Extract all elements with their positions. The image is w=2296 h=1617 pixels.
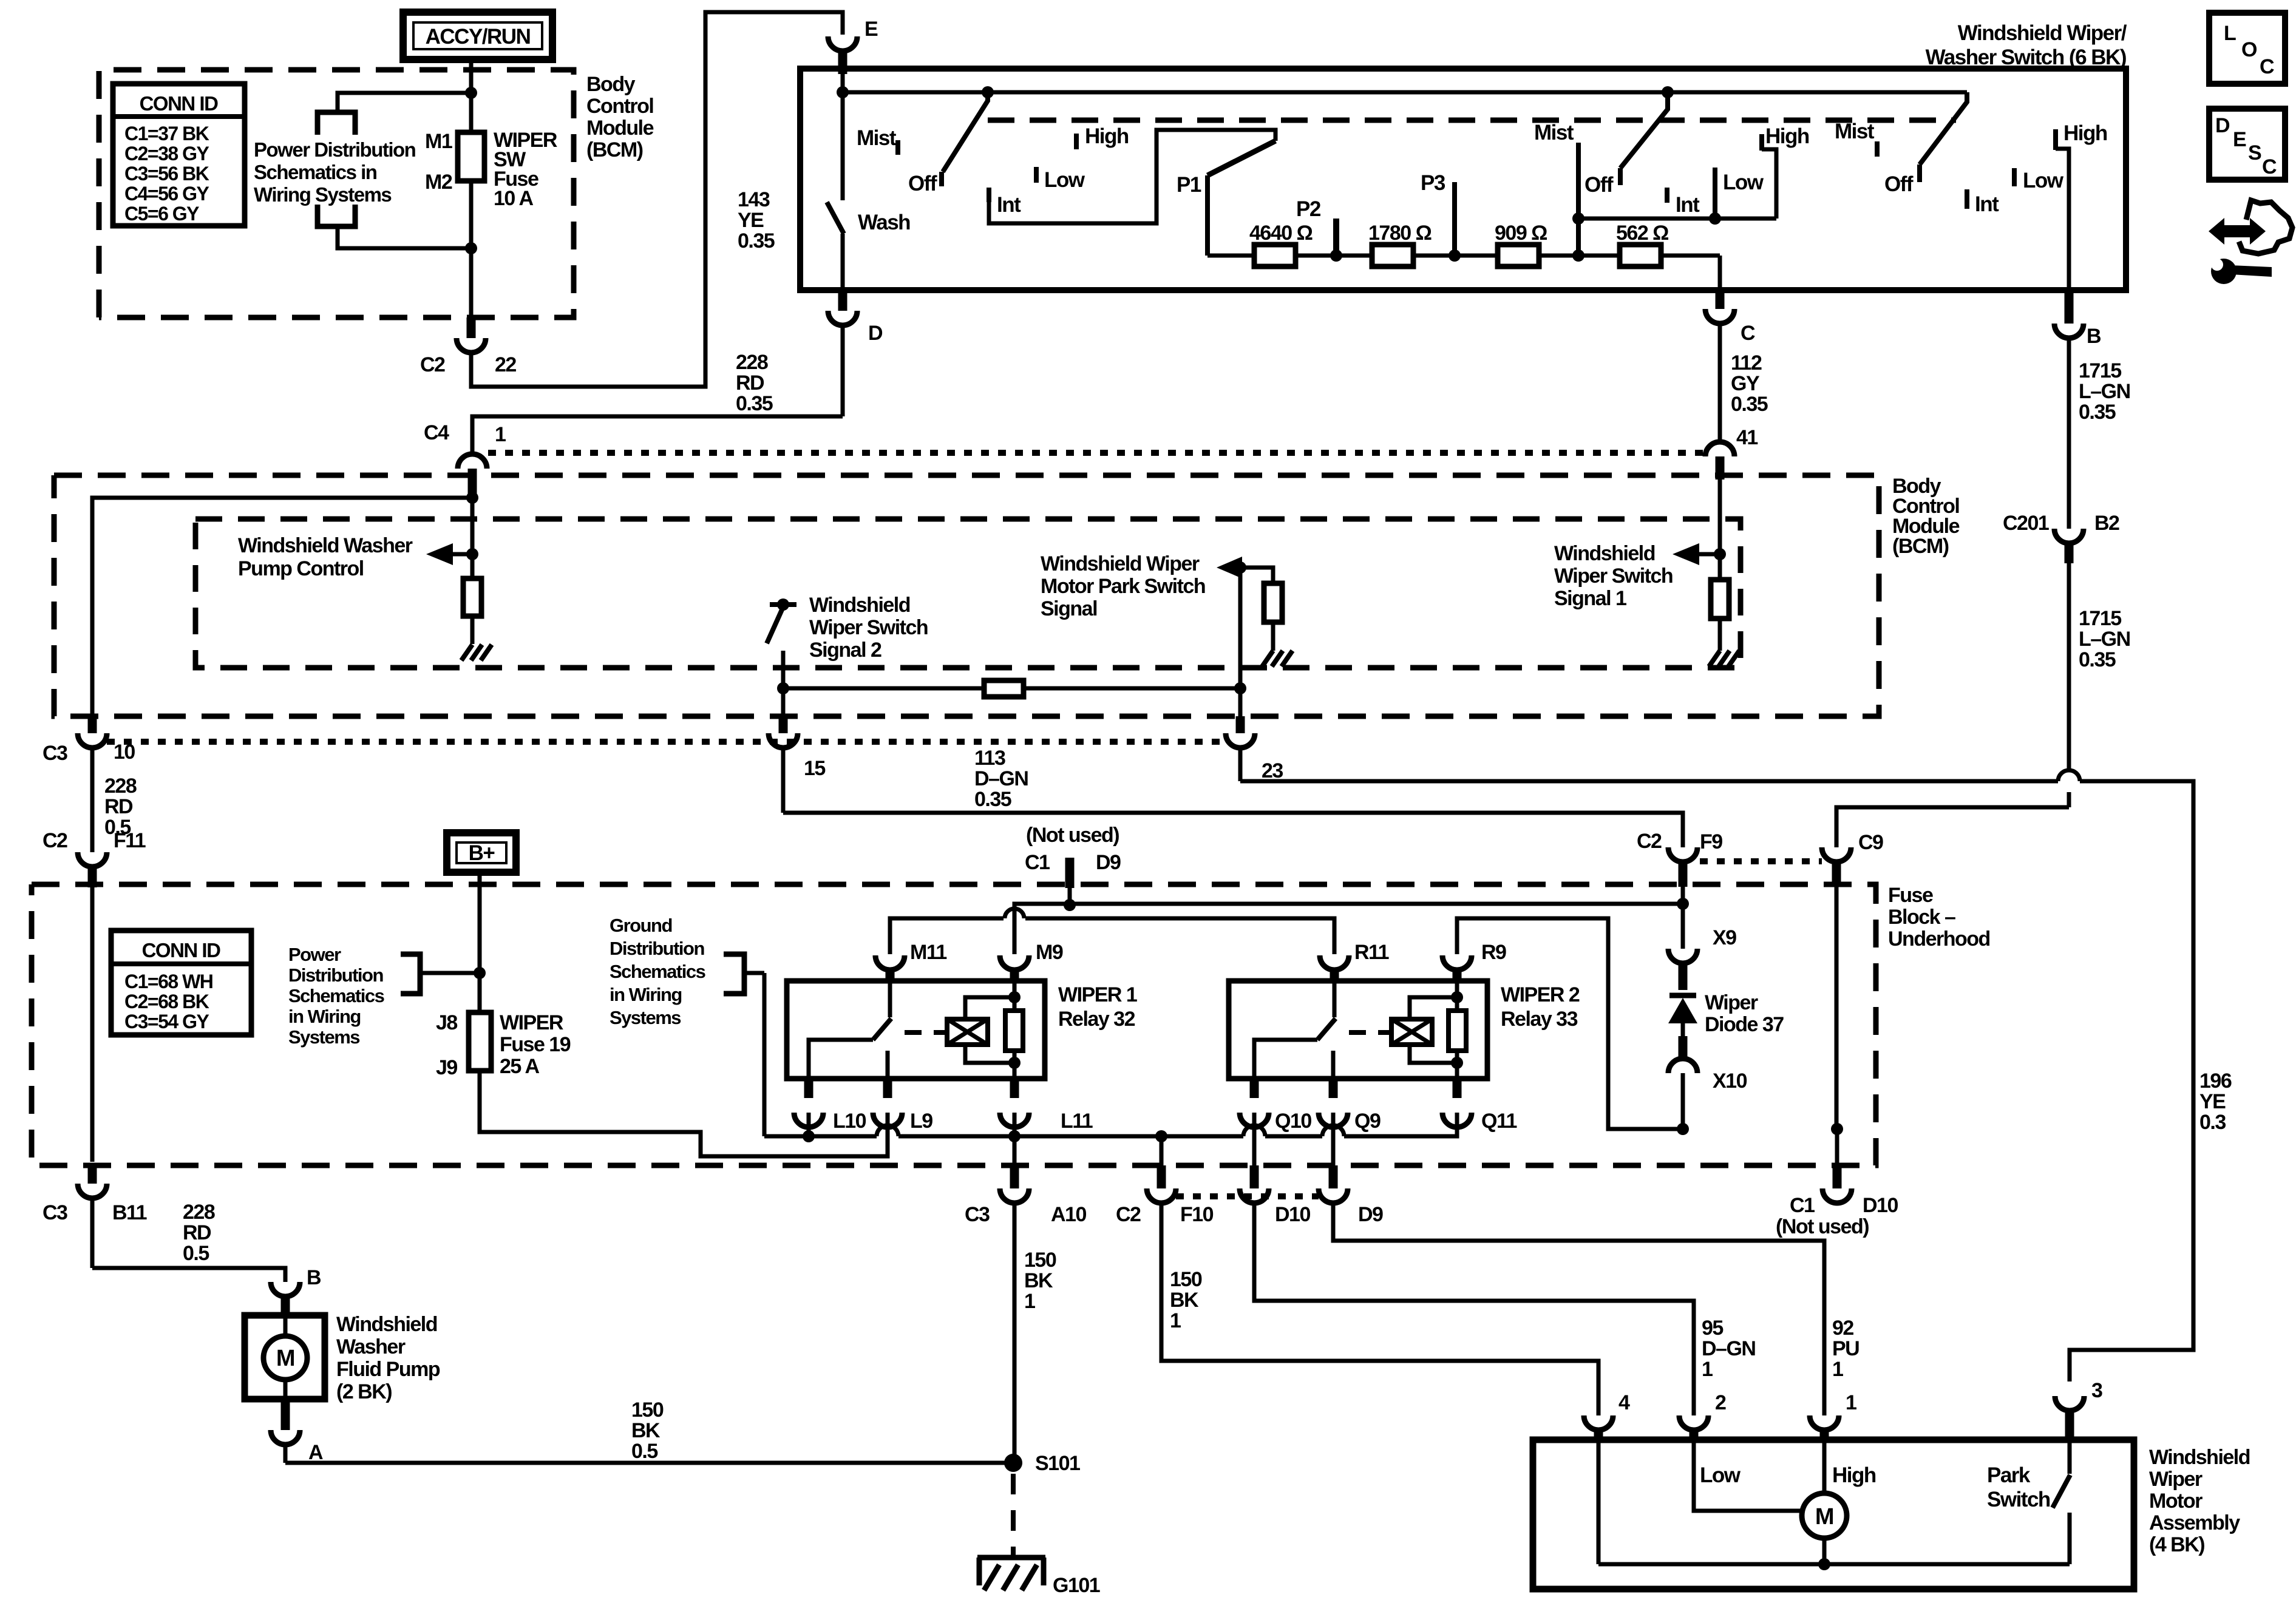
CONN ID table 1 <box>113 84 245 226</box>
svg-text:X10: X10 <box>1713 1070 1747 1093</box>
svg-text:Int: Int <box>997 193 1021 217</box>
wire D to C4 <box>472 416 843 454</box>
svg-text:Diode 37: Diode 37 <box>1705 1013 1784 1036</box>
service icon hand outline <box>2239 200 2292 254</box>
svg-text:F11: F11 <box>114 829 146 852</box>
svg-text:BK: BK <box>1170 1289 1199 1312</box>
connector L9 <box>883 1079 892 1098</box>
node X10 W4 <box>1677 1123 1689 1135</box>
connector C3 A10 <box>1013 1136 1017 1165</box>
BCM (top) dashed box <box>99 70 574 317</box>
svg-text:Off: Off <box>1584 173 1614 197</box>
wire Int to P1 wiper <box>989 130 1275 223</box>
svg-text:C1=68 WH: C1=68 WH <box>124 971 212 992</box>
connector R9 <box>1442 955 1472 970</box>
wire signal2 to 15 <box>781 688 786 716</box>
svg-text:F10: F10 <box>1180 1203 1214 1226</box>
wire B11 to washer pump B <box>92 1268 285 1282</box>
connector L10 <box>804 1079 813 1098</box>
svg-text:4640 Ω: 4640 Ω <box>1249 222 1313 245</box>
svg-text:Signal 2: Signal 2 <box>809 639 881 662</box>
svg-text:Windshield Wiper: Windshield Wiper <box>1041 552 1200 575</box>
svg-text:D10: D10 <box>1863 1194 1898 1217</box>
svg-text:B: B <box>307 1266 321 1289</box>
connector E <box>828 36 857 51</box>
svg-text:CONN ID: CONN ID <box>140 92 219 115</box>
contact High (bank1) <box>1074 134 1079 149</box>
connector 3 <box>2055 1396 2084 1411</box>
svg-text:143: 143 <box>738 188 770 211</box>
svg-text:D: D <box>868 322 883 345</box>
svg-text:M1: M1 <box>425 130 452 153</box>
svg-text:Int: Int <box>1676 193 1700 217</box>
svg-text:WIPER 1: WIPER 1 <box>1058 983 1137 1006</box>
svg-text:M: M <box>1815 1504 1833 1530</box>
node motor common <box>1818 1558 1830 1570</box>
svg-text:A: A <box>308 1441 323 1464</box>
off-page bracket (ground distribution) <box>724 954 744 994</box>
DESC box <box>2209 109 2285 180</box>
svg-text:C2=68 BK: C2=68 BK <box>124 991 209 1012</box>
resistor 1780 ohm <box>1372 245 1413 266</box>
node signal2 113 <box>777 682 789 694</box>
svg-text:Washer Switch (6 BK): Washer Switch (6 BK) <box>1926 46 2126 69</box>
node washer pump control <box>466 548 478 560</box>
node bank1 pivot <box>982 86 994 98</box>
relay 32 coil <box>947 1019 988 1045</box>
svg-text:B: B <box>2087 325 2101 348</box>
ground G101 <box>977 1555 1045 1561</box>
motor wire low <box>1694 1440 1802 1511</box>
svg-text:Q9: Q9 <box>1354 1110 1381 1133</box>
node wiper switch signal 1 <box>1714 548 1726 560</box>
svg-text:WIPER 2: WIPER 2 <box>1501 983 1580 1006</box>
svg-text:WIPER: WIPER <box>500 1011 563 1034</box>
svg-text:(Not used): (Not used) <box>1776 1215 1869 1238</box>
wire 143 YE C2-22 to E <box>471 12 843 387</box>
washer pump M1 box <box>245 1315 325 1399</box>
svg-text:Windshield: Windshield <box>809 594 910 617</box>
svg-text:10: 10 <box>114 741 135 764</box>
wire ACCY/RUN to fuse M1 <box>469 59 474 132</box>
connector C4 pin 1 <box>470 416 475 454</box>
relay 32 fixed contact <box>888 981 892 1017</box>
svg-text:R9: R9 <box>1481 941 1506 964</box>
node F10 ground <box>1155 1130 1167 1142</box>
relay 32 common path <box>809 1040 873 1079</box>
wire C4 to C3-10 <box>92 498 472 716</box>
connector X9 <box>1668 949 1697 963</box>
connector C <box>1716 290 1725 309</box>
svg-text:L–GN: L–GN <box>2079 380 2130 403</box>
svg-text:P2: P2 <box>1296 197 1321 221</box>
svg-text:1: 1 <box>1024 1290 1035 1313</box>
wire washer pump control <box>470 498 475 578</box>
connector Q11 <box>1453 1079 1462 1098</box>
svg-text:Power Distribution: Power Distribution <box>254 138 416 161</box>
svg-text:High: High <box>2063 121 2107 145</box>
contact Mist (bank1) <box>895 140 900 155</box>
CONN ID table 2 <box>111 931 251 1035</box>
svg-text:0.5: 0.5 <box>183 1242 209 1265</box>
resistor 4640 ohm <box>1254 245 1296 266</box>
contact Int (bank1) <box>987 188 991 202</box>
svg-text:Fluid Pump: Fluid Pump <box>336 1358 440 1381</box>
relay 33 blade <box>1317 1019 1336 1040</box>
wire W2 relay feed <box>890 918 1004 954</box>
relay 32 actuation dashes <box>905 1030 945 1035</box>
fuse WIPER Fuse 19 25A <box>469 1012 491 1071</box>
svg-text:Windshield Washer: Windshield Washer <box>238 534 413 557</box>
svg-text:Motor: Motor <box>2149 1490 2203 1513</box>
svg-text:Relay 33: Relay 33 <box>1501 1008 1578 1031</box>
resistor park switch signal <box>1240 568 1273 583</box>
relay 33 common path <box>1254 1040 1317 1079</box>
svg-text:Off: Off <box>1884 172 1914 196</box>
connector C2 F11 <box>78 852 107 867</box>
svg-text:C: C <box>2260 55 2274 78</box>
svg-text:Block –: Block – <box>1888 906 1955 929</box>
connector L11 <box>1010 1079 1019 1098</box>
switch blade bank1 <box>943 92 988 172</box>
wire 150 BK A to S101 <box>285 1461 1013 1465</box>
svg-text:R11: R11 <box>1354 941 1389 964</box>
dotted line F10-D9 row <box>1176 1193 1319 1199</box>
resistor 562 ohm <box>1620 245 1661 266</box>
connector 1 <box>1810 1415 1839 1430</box>
svg-text:113: 113 <box>974 747 1005 770</box>
svg-text:RD: RD <box>183 1221 211 1244</box>
wire fuse M2 down <box>469 181 474 317</box>
arrow wiper switch signal 1 <box>1698 552 1720 557</box>
svg-text:Mist: Mist <box>1534 121 1574 144</box>
svg-text:3: 3 <box>2091 1379 2102 1402</box>
wire F10 to motor 4 <box>1161 1203 1598 1415</box>
svg-text:41: 41 <box>1736 426 1758 449</box>
node L11 ground <box>1008 1130 1021 1142</box>
svg-text:Signal: Signal <box>1041 597 1097 620</box>
connector R11 <box>1320 955 1349 970</box>
svg-text:in Wiring: in Wiring <box>610 984 682 1005</box>
svg-text:B2: B2 <box>2094 512 2119 535</box>
svg-text:0.35: 0.35 <box>974 788 1011 811</box>
svg-text:RD: RD <box>736 371 764 395</box>
svg-text:E: E <box>2233 128 2246 151</box>
svg-text:0.35: 0.35 <box>736 392 773 415</box>
svg-text:B+: B+ <box>469 841 495 865</box>
svg-text:J9: J9 <box>436 1056 457 1079</box>
svg-text:Motor Park Switch: Motor Park Switch <box>1041 575 1205 598</box>
svg-text:Underhood: Underhood <box>1888 927 1990 951</box>
contact wire Mist (bank2) <box>1576 143 1581 256</box>
connector C3 B11 <box>88 1165 97 1184</box>
node fuse bottom <box>465 242 477 254</box>
resistor 909 ohm <box>1498 245 1539 266</box>
contact Mist (bank3) <box>1875 141 1880 157</box>
contact Int (bank2) <box>1665 188 1669 203</box>
svg-text:in Wiring: in Wiring <box>288 1006 361 1027</box>
wire R9 feed <box>1457 918 1683 1129</box>
node W1 F9 <box>1677 898 1689 910</box>
relay 33 coil wiring <box>1410 997 1457 1019</box>
svg-text:O: O <box>2241 38 2257 61</box>
svg-text:228: 228 <box>183 1201 215 1224</box>
svg-text:C1: C1 <box>1025 851 1050 874</box>
service icon double arrow <box>2209 218 2266 245</box>
svg-text:L–GN: L–GN <box>2079 628 2130 651</box>
node C4 junction <box>466 492 478 504</box>
wire 113 D-GN 15 to C2-F9 <box>783 813 1683 847</box>
svg-text:23: 23 <box>1262 759 1283 782</box>
svg-text:Switch: Switch <box>1987 1488 2050 1511</box>
tap P3 <box>1452 182 1457 256</box>
arrow wiper motor park switch signal <box>1217 557 1242 578</box>
connector D <box>838 290 847 311</box>
BCM (main) dashed box <box>54 475 1879 716</box>
svg-text:Windshield Wiper/: Windshield Wiper/ <box>1958 21 2127 45</box>
svg-text:P3: P3 <box>1421 171 1445 195</box>
svg-text:0.35: 0.35 <box>738 229 775 253</box>
connector C1 D10 (not used) <box>1833 1165 1842 1188</box>
wire 113 D-GN resistor <box>783 686 984 691</box>
wire wiper motor park switch signal <box>1238 568 1243 716</box>
svg-text:10 A: 10 A <box>494 187 534 210</box>
connector M9 <box>1000 955 1029 970</box>
svg-text:GY: GY <box>1731 372 1760 395</box>
fuse block underhood dashed box <box>32 884 1876 1165</box>
wire wiper switch signal 1 <box>1718 554 1722 580</box>
wire C9 to D10 (not used) <box>1835 1129 1839 1165</box>
ground (washer pump control) <box>461 645 472 660</box>
svg-text:C2: C2 <box>1637 830 1662 853</box>
wire switch common bus <box>841 74 845 92</box>
svg-text:4: 4 <box>1618 1391 1630 1414</box>
svg-text:M: M <box>276 1346 294 1371</box>
svg-text:High: High <box>1085 124 1129 148</box>
svg-text:Relay 32: Relay 32 <box>1058 1008 1135 1031</box>
ground (wiper switch signal 1) <box>1709 651 1720 666</box>
switch Wash <box>841 92 845 200</box>
node C9 W4 <box>1831 1123 1843 1135</box>
svg-text:C1: C1 <box>1790 1194 1815 1217</box>
windshield wiper/washer switch box <box>800 69 2126 290</box>
washer pump motor M <box>284 1315 288 1337</box>
svg-text:1: 1 <box>1170 1309 1181 1332</box>
wire Int bus (bank2) <box>1578 217 1776 221</box>
relay 32 NO contact <box>886 1051 890 1079</box>
connector B (washer pump) <box>271 1282 300 1297</box>
svg-text:C3: C3 <box>42 1201 67 1224</box>
svg-text:C1=37 BK: C1=37 BK <box>124 123 209 144</box>
svg-text:150: 150 <box>1024 1249 1056 1272</box>
svg-text:C3: C3 <box>42 742 67 765</box>
svg-text:Fuse 19: Fuse 19 <box>500 1033 571 1056</box>
svg-text:D9: D9 <box>1358 1203 1383 1226</box>
svg-text:BK: BK <box>631 1419 661 1442</box>
svg-text:E: E <box>864 18 878 41</box>
svg-text:1: 1 <box>1702 1358 1713 1381</box>
connector D9 (relay) <box>1329 1165 1338 1188</box>
power feed box B+ <box>447 833 516 872</box>
svg-text:Q11: Q11 <box>1481 1110 1517 1133</box>
svg-text:15: 15 <box>804 757 825 780</box>
svg-text:228: 228 <box>736 351 768 374</box>
svg-text:D–GN: D–GN <box>1702 1337 1755 1360</box>
svg-text:Washer: Washer <box>336 1335 406 1358</box>
svg-text:(4 BK): (4 BK) <box>2149 1533 2204 1556</box>
svg-text:95: 95 <box>1702 1317 1723 1340</box>
connector Q10 <box>1250 1079 1259 1098</box>
motor wire high <box>1822 1440 1827 1493</box>
svg-text:Power: Power <box>288 944 341 965</box>
svg-text:C9: C9 <box>1858 831 1883 854</box>
BCM inner dashed box <box>195 519 1741 668</box>
motor M2 (wiper motor) <box>1802 1493 1847 1538</box>
node wash tap <box>837 86 849 98</box>
svg-text:Distribution: Distribution <box>288 964 383 986</box>
svg-text:G101: G101 <box>1053 1574 1100 1597</box>
wire fuse 19 to L9 <box>480 1071 888 1156</box>
arrow windshield washer pump control <box>452 552 472 557</box>
svg-text:L10: L10 <box>833 1110 866 1133</box>
svg-text:Wiper Switch: Wiper Switch <box>1554 564 1673 588</box>
svg-text:Assembly: Assembly <box>2149 1511 2240 1534</box>
svg-text:0.3: 0.3 <box>2199 1111 2226 1134</box>
svg-text:C5=6 GY: C5=6 GY <box>124 203 199 225</box>
svg-text:Wiper Switch: Wiper Switch <box>809 616 928 639</box>
motor wire common <box>1822 1538 1827 1564</box>
svg-text:High: High <box>1832 1463 1876 1487</box>
svg-text:F9: F9 <box>1700 830 1722 853</box>
wire B+ to fuse 19 <box>478 872 482 1012</box>
contact Low (bank1) <box>1034 167 1039 183</box>
svg-text:RD: RD <box>104 795 133 818</box>
wire D10 to motor 2 <box>1254 1203 1694 1415</box>
service icon wrench <box>2211 259 2237 284</box>
svg-text:C201: C201 <box>2003 512 2049 535</box>
svg-text:22: 22 <box>495 353 516 376</box>
connector C2 pin 22 <box>467 317 476 338</box>
contact High (bank2) <box>1759 134 1764 151</box>
bracket upper (power distribution BCM) <box>338 93 471 112</box>
windshield wiper motor assembly box <box>1533 1440 2134 1589</box>
svg-text:M11: M11 <box>910 941 946 964</box>
connector C3 pin 10 <box>88 716 97 733</box>
svg-text:(2 BK): (2 BK) <box>336 1380 392 1403</box>
svg-text:Schematics: Schematics <box>288 985 384 1006</box>
svg-text:A10: A10 <box>1051 1203 1086 1226</box>
svg-text:Pump Control: Pump Control <box>238 557 364 580</box>
svg-text:1715: 1715 <box>2079 607 2121 630</box>
connector A (washer pump) <box>281 1399 290 1430</box>
contact wire Low (bank2) <box>1713 168 1717 219</box>
svg-text:2: 2 <box>1715 1391 1726 1414</box>
svg-text:Body: Body <box>586 73 636 96</box>
svg-text:C3=54 GY: C3=54 GY <box>124 1011 209 1032</box>
svg-text:Wiring Systems: Wiring Systems <box>254 183 391 206</box>
connector B <box>2065 290 2074 324</box>
svg-text:PU: PU <box>1832 1337 1859 1360</box>
svg-text:P1: P1 <box>1177 173 1201 197</box>
node bank2 pivot <box>1662 86 1674 98</box>
svg-text:Control: Control <box>586 95 653 118</box>
svg-text:228: 228 <box>104 775 137 798</box>
dotted line C3 connector row <box>107 739 1226 745</box>
connector 4 <box>1584 1415 1613 1430</box>
dashed gang line <box>988 118 1956 123</box>
svg-text:C2: C2 <box>1116 1203 1141 1226</box>
svg-text:0.35: 0.35 <box>2079 648 2116 671</box>
wire W1 relay feed <box>1014 904 1683 954</box>
connector M11 <box>875 955 905 970</box>
wire F9 to X9 <box>1681 904 1685 949</box>
wire 113 D-GN 23 to 196 YE <box>1240 779 2058 784</box>
diode CR37 wiper diode 37 <box>1669 993 1696 998</box>
svg-text:High: High <box>1765 124 1809 148</box>
svg-text:C2: C2 <box>42 829 67 852</box>
svg-text:562 Ω: 562 Ω <box>1616 222 1668 245</box>
svg-text:Wiper: Wiper <box>1705 991 1758 1014</box>
relay 33 NO contact <box>1331 1051 1336 1079</box>
wire S101 to G101 dashed <box>1011 1474 1016 1555</box>
svg-text:150: 150 <box>1170 1268 1202 1291</box>
svg-text:Low: Low <box>1723 171 1764 194</box>
wire ladder to C <box>1718 256 1722 290</box>
switch wiper switch signal 2 <box>770 602 796 607</box>
svg-text:92: 92 <box>1832 1317 1853 1340</box>
svg-text:C3=56 BK: C3=56 BK <box>124 163 209 185</box>
svg-text:0.35: 0.35 <box>2079 401 2116 424</box>
relay U33 WIPER 2 Relay 33 box <box>1229 981 1487 1079</box>
dotted line F9-C9 <box>1700 858 1822 864</box>
connector 15 <box>779 716 788 733</box>
switch blade P1 <box>1207 141 1275 175</box>
relay 32 resistor <box>1005 1011 1023 1051</box>
node 23 113 <box>1234 682 1246 694</box>
svg-text:ACCY/RUN: ACCY/RUN <box>426 25 531 49</box>
svg-text:(Not used): (Not used) <box>1026 824 1119 847</box>
svg-text:D–GN: D–GN <box>974 767 1028 790</box>
svg-text:196: 196 <box>2199 1070 2232 1093</box>
wire 1715 to C9 <box>2067 792 2071 807</box>
off-page bracket (power distribution fuse block) <box>401 954 420 994</box>
svg-text:Fuse: Fuse <box>1888 884 1933 907</box>
relay 32 coil wiring <box>965 997 1014 1019</box>
svg-text:Schematics: Schematics <box>610 961 705 982</box>
svg-text:Low: Low <box>1700 1463 1741 1487</box>
power feed box ACCY/RUN <box>403 12 552 59</box>
svg-text:CONN ID: CONN ID <box>142 939 221 961</box>
svg-text:Ground: Ground <box>610 915 672 936</box>
svg-text:1780 Ω: 1780 Ω <box>1368 222 1432 245</box>
svg-text:Windshield: Windshield <box>1554 542 1655 565</box>
connector C2 F9 <box>1668 847 1697 862</box>
svg-text:YE: YE <box>738 209 764 232</box>
svg-text:Module: Module <box>586 117 654 140</box>
node L10 ground <box>803 1130 815 1142</box>
LOC box <box>2209 13 2285 84</box>
svg-text:Int: Int <box>1975 192 1999 216</box>
svg-text:D: D <box>2215 114 2230 137</box>
svg-text:S101: S101 <box>1035 1452 1080 1475</box>
svg-text:Wash: Wash <box>858 211 910 234</box>
connector 2 <box>1679 1415 1708 1430</box>
connector 23 <box>1236 716 1245 733</box>
svg-text:C: C <box>1741 322 1755 345</box>
relay 33 resistor <box>1449 1011 1466 1051</box>
svg-text:C4: C4 <box>424 421 449 444</box>
svg-text:Off: Off <box>908 172 937 195</box>
